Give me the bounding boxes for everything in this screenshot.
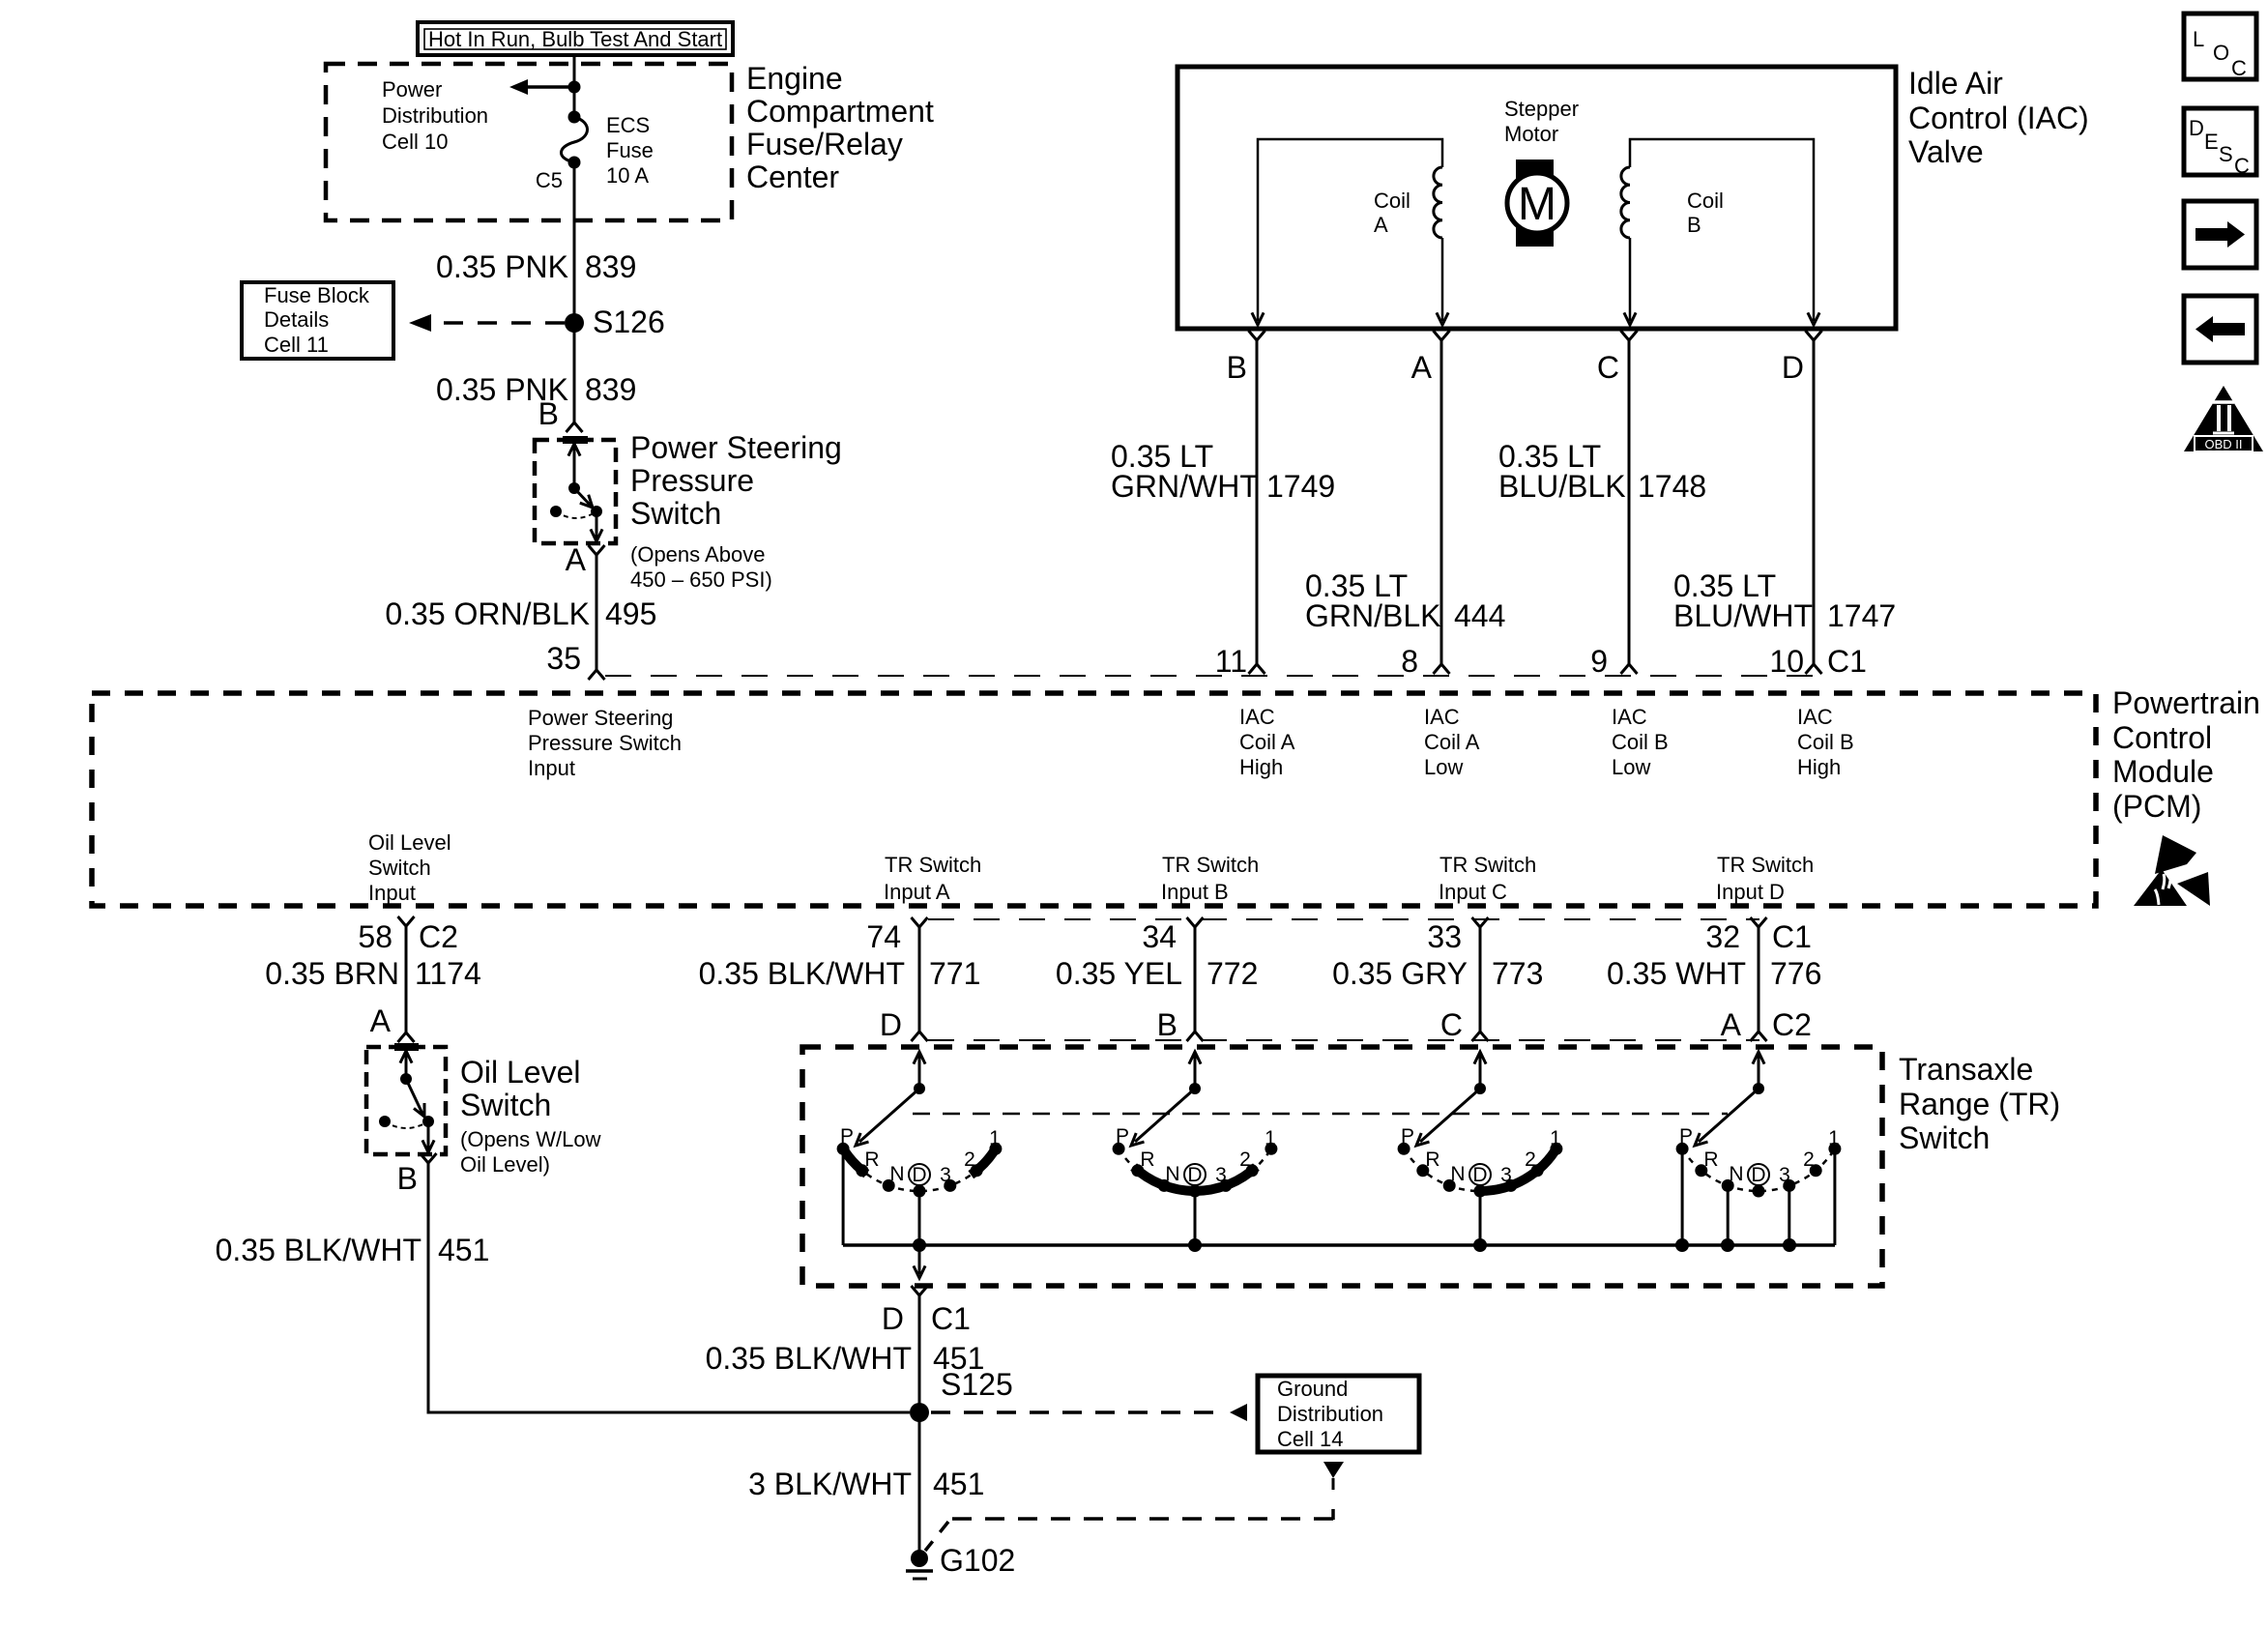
svg-text:3 BLK/WHT: 3 BLK/WHT: [748, 1467, 912, 1501]
bus junction: [913, 1238, 926, 1252]
svg-text:N: N: [1165, 1163, 1179, 1185]
svg-text:Oil Level: Oil Level: [460, 1055, 581, 1090]
svg-text:Input A: Input A: [884, 880, 950, 904]
pin 33 (PCM C1): [1472, 917, 1489, 927]
PCM output label TR Switch Input A: [884, 853, 981, 904]
icon OBD II triangle: [2184, 386, 2263, 451]
svg-text:451: 451: [438, 1233, 489, 1267]
icon arrow left: [2184, 296, 2256, 363]
svg-text:8: 8: [1401, 644, 1418, 679]
svg-text:35: 35: [546, 641, 581, 676]
TR switch wiper pivot S4: [1753, 1083, 1764, 1094]
svg-text:451: 451: [933, 1467, 984, 1501]
label 0.35 WHT 776: [1607, 956, 1821, 991]
svg-text:D: D: [2189, 116, 2204, 140]
wire 0.35 PNK 839 (fuse to S126): [573, 162, 576, 422]
TR switch wiper pivot S3: [1474, 1083, 1486, 1094]
TR switch wiper arm S2: [1135, 1089, 1195, 1142]
label 0.35 LT BLU/BLK 1748: [1498, 439, 1706, 504]
svg-text:Fuse/Relay: Fuse/Relay: [746, 127, 903, 161]
oil switch fixed contact bar: [394, 1043, 419, 1051]
Transaxle Range (TR) Switch box: [802, 1047, 1882, 1286]
svg-text:Input D: Input D: [1716, 880, 1785, 904]
svg-text:0.35 BLK/WHT: 0.35 BLK/WHT: [699, 956, 905, 991]
junction to Power Distribution: [568, 81, 581, 94]
svg-text:2: 2: [1525, 1148, 1536, 1171]
svg-text:High: High: [1239, 755, 1283, 779]
svg-text:(Opens Above: (Opens Above: [630, 542, 765, 567]
TR switch contact 1 S3: [1550, 1143, 1562, 1155]
dashed link to Ground Distribution: [931, 1404, 1247, 1421]
svg-text:Fuse: Fuse: [606, 138, 654, 162]
TR switch contact arc S3: [1404, 1148, 1556, 1191]
TR switch wiper pivot S1: [914, 1083, 925, 1094]
TR switch contact arc S2: [1119, 1148, 1271, 1191]
svg-text:BLU/WHT: BLU/WHT: [1673, 598, 1813, 633]
TR switch contact wire S4: [1833, 1153, 1836, 1245]
TR switch contact arc S4: [1682, 1148, 1835, 1191]
svg-text:Distribution: Distribution: [1277, 1402, 1383, 1426]
TR switch contact 1 S2: [1265, 1143, 1277, 1155]
switch moving arm: [574, 488, 591, 506]
svg-text:C2: C2: [419, 919, 458, 954]
svg-text:2: 2: [1239, 1148, 1251, 1171]
TR switch output arrow: [918, 1245, 921, 1274]
svg-text:Pressure: Pressure: [630, 463, 754, 498]
svg-text:Center: Center: [746, 160, 839, 194]
svg-text:Power Steering: Power Steering: [528, 706, 673, 730]
svg-text:S126: S126: [593, 305, 665, 339]
svg-text:0.35 BRN: 0.35 BRN: [265, 956, 399, 991]
oil switch input arrow: [405, 1053, 408, 1079]
bus junction: [1783, 1238, 1796, 1252]
TR switch contact 2 S1: [971, 1164, 983, 1177]
svg-text:0.35 PNK: 0.35 PNK: [436, 249, 568, 284]
arrow to Power Distribution Cell 10: [509, 79, 574, 95]
TR switch contact P S3: [1398, 1143, 1410, 1155]
terminal B of IAC valve: [1249, 331, 1265, 340]
svg-text:34: 34: [1142, 919, 1177, 954]
label Stepper Motor: [1504, 97, 1579, 146]
TR switch contact N S2: [1158, 1179, 1171, 1192]
bus junction: [1473, 1238, 1487, 1252]
switch input arrow: [573, 446, 576, 488]
TR switch contact N S3: [1443, 1179, 1456, 1192]
svg-text:G102: G102: [940, 1543, 1015, 1578]
dashed arrow to Fuse Block Details: [409, 314, 565, 332]
svg-text:Transaxle: Transaxle: [1899, 1052, 2033, 1087]
coil A wire arrow (B side): [1252, 312, 1264, 325]
label 0.35 YEL 772: [1056, 956, 1258, 991]
svg-text:Engine: Engine: [746, 61, 843, 96]
svg-text:N: N: [889, 1163, 904, 1185]
svg-text:GRN/BLK: GRN/BLK: [1305, 598, 1440, 633]
svg-text:9: 9: [1590, 644, 1608, 679]
coil A wire arrow (A side): [1437, 312, 1448, 325]
svg-text:P: P: [1679, 1125, 1693, 1148]
oil switch alternate contact: [379, 1116, 391, 1127]
svg-text:A: A: [566, 542, 587, 577]
svg-text:D: D: [882, 1301, 904, 1336]
wire PCM 74 to TR switch: [918, 927, 921, 1032]
switch fixed contact bar: [563, 436, 588, 444]
switch alternate contact: [550, 506, 562, 517]
pin 32 (PCM C1): [1751, 917, 1767, 927]
TR switch contact R S3: [1416, 1164, 1429, 1177]
svg-text:0.35 BLK/WHT: 0.35 BLK/WHT: [706, 1341, 912, 1376]
svg-text:32: 32: [1705, 919, 1740, 954]
TR switch common bus: [843, 1243, 1835, 1247]
svg-text:Stepper: Stepper: [1504, 97, 1579, 121]
terminal D (TR C1): [912, 1286, 928, 1295]
TR switch contact P S4: [1676, 1143, 1689, 1155]
svg-text:B: B: [1687, 213, 1701, 237]
TR switch wiper arm S1: [859, 1089, 919, 1142]
svg-text:1: 1: [989, 1127, 1001, 1149]
Idle Air Control (IAC) Valve box: [1178, 67, 1896, 329]
svg-text:ECS: ECS: [606, 113, 650, 137]
connector C2 grouping line (TR box): [928, 1039, 1759, 1041]
TR switch contact arc S1: [843, 1148, 996, 1191]
TR switch thick contact segment S2: [1134, 1167, 1257, 1191]
svg-text:N: N: [1450, 1163, 1465, 1185]
svg-text:L: L: [2193, 27, 2204, 51]
wire IAC D to PCM: [1813, 340, 1816, 664]
svg-text:P: P: [840, 1125, 854, 1148]
svg-text:C: C: [2234, 154, 2250, 178]
wire PCM 33 to TR switch: [1479, 927, 1482, 1032]
svg-text:B: B: [538, 396, 559, 431]
svg-text:2: 2: [964, 1148, 975, 1171]
svg-text:D: D: [1472, 1164, 1487, 1186]
svg-text:Powertrain: Powertrain: [2112, 685, 2260, 720]
wire PCM 34 to TR switch: [1194, 927, 1197, 1032]
label 0.35 BLK/WHT 771: [699, 956, 981, 991]
note (Opens Above 450 - 650 PSI): [630, 542, 772, 592]
PCM output label TR Switch Input D: [1716, 853, 1814, 904]
svg-text:2: 2: [1803, 1148, 1815, 1171]
switch contact (output): [591, 506, 602, 517]
svg-text:Oil Level: Oil Level: [368, 830, 451, 855]
TR switch input arrow: [1479, 1054, 1482, 1089]
svg-text:450 – 650 PSI): 450 – 650 PSI): [630, 567, 772, 592]
svg-text:D: D: [1782, 350, 1804, 385]
icon LOC: [2184, 14, 2256, 80]
svg-text:C: C: [1597, 350, 1619, 385]
label Oil Level Switch: [460, 1055, 581, 1122]
svg-text:S125: S125: [941, 1367, 1013, 1402]
svg-text:Coil: Coil: [1687, 189, 1724, 213]
fuse ECS Fuse 10 A: [562, 111, 588, 169]
svg-text:M: M: [1518, 179, 1556, 230]
svg-text:Coil A: Coil A: [1424, 730, 1480, 754]
svg-text:C: C: [1440, 1007, 1463, 1042]
svg-text:IAC: IAC: [1797, 705, 1833, 729]
svg-text:(PCM): (PCM): [2112, 789, 2201, 824]
TR switch contact wire S2: [1194, 1197, 1197, 1245]
svg-text:0.35 ORN/BLK: 0.35 ORN/BLK: [385, 596, 590, 631]
position label D (circled) S3: [1469, 1164, 1491, 1185]
svg-text:3: 3: [1215, 1164, 1227, 1186]
terminal C of IAC valve: [1621, 331, 1638, 340]
icon DESC: [2184, 108, 2256, 178]
svg-text:Input: Input: [368, 881, 416, 905]
svg-text:Details: Details: [264, 307, 329, 332]
svg-text:1: 1: [1265, 1127, 1276, 1149]
svg-text:74: 74: [866, 919, 901, 954]
svg-text:Cell 14: Cell 14: [1277, 1427, 1343, 1451]
svg-text:A: A: [1374, 213, 1388, 237]
Power Steering Pressure Switch box: [535, 440, 616, 543]
TR switch contact 2 S2: [1246, 1164, 1259, 1177]
svg-text:1174: 1174: [415, 956, 481, 991]
TR switch input arrow: [918, 1054, 921, 1089]
bus junction: [1188, 1238, 1202, 1252]
svg-text:3: 3: [940, 1164, 951, 1186]
splice S126: [565, 305, 665, 339]
svg-text:Hot In Run, Bulb Test And Star: Hot In Run, Bulb Test And Start: [428, 27, 722, 51]
coil B wire arrow (C side): [1624, 312, 1636, 325]
label 0.35 LT BLU/WHT 1747: [1673, 568, 1896, 633]
ground G102: [906, 1543, 1015, 1579]
coil A wiring: [1258, 139, 1442, 321]
connector C1 grouping line (PCM top): [605, 675, 1815, 677]
svg-text:Switch: Switch: [368, 856, 431, 880]
svg-text:0.35 WHT: 0.35 WHT: [1607, 956, 1746, 991]
bus junction: [1721, 1238, 1734, 1252]
svg-text:IAC: IAC: [1612, 705, 1647, 729]
svg-text:Low: Low: [1424, 755, 1463, 779]
PCM output label TR Switch Input C: [1439, 853, 1536, 904]
svg-text:Motor: Motor: [1504, 122, 1558, 146]
wire PCM 32 to TR switch: [1758, 927, 1760, 1032]
PCM input label IAC Coil A High: [1239, 705, 1295, 779]
TR switch contact P S1: [837, 1143, 850, 1155]
svg-text:1748: 1748: [1638, 469, 1706, 504]
svg-text:C5: C5: [536, 168, 563, 192]
ground reference arrow below box: [1323, 1462, 1344, 1490]
svg-text:R: R: [1703, 1148, 1718, 1171]
TR switch contact wire S1: [842, 1150, 845, 1245]
svg-text:B: B: [1157, 1007, 1178, 1042]
label 0.35 LT GRN/WHT 1749: [1111, 439, 1335, 504]
svg-text:Input: Input: [528, 756, 575, 780]
TR switch contact P S2: [1113, 1143, 1125, 1155]
svg-text:1749: 1749: [1266, 469, 1335, 504]
TR switch thick contact segment S1: [971, 1147, 997, 1176]
TR switch contact D S3: [1474, 1185, 1487, 1198]
svg-text:P: P: [1401, 1125, 1414, 1148]
svg-text:0.35 GRY: 0.35 GRY: [1332, 956, 1468, 991]
PCM input label Power Steering Pressure Switch Input: [528, 706, 682, 780]
label Powertrain Control Module (PCM): [2112, 685, 2260, 824]
svg-text:B: B: [397, 1161, 418, 1196]
terminal A of IAC valve: [1434, 331, 1450, 340]
svg-text:E: E: [2204, 130, 2219, 154]
TR switch input arrow: [1194, 1054, 1197, 1089]
svg-text:1747: 1747: [1827, 598, 1896, 633]
svg-text:IAC: IAC: [1424, 705, 1460, 729]
inductor Coil B: [1621, 167, 1630, 238]
svg-text:1: 1: [1828, 1127, 1840, 1149]
PCM input label IAC Coil A Low: [1424, 705, 1480, 779]
TR switch contact 3 S1: [944, 1179, 956, 1192]
dashed path to G102: [925, 1509, 1333, 1551]
svg-text:B: B: [1227, 350, 1247, 385]
svg-text:R: R: [1140, 1148, 1154, 1171]
svg-text:444: 444: [1454, 598, 1505, 633]
svg-text:TR Switch: TR Switch: [1717, 853, 1814, 877]
svg-text:TR Switch: TR Switch: [1162, 853, 1259, 877]
Engine Compartment Fuse/Relay Center box: [326, 64, 732, 220]
icon arrow right: [2184, 201, 2256, 268]
svg-text:58: 58: [358, 919, 393, 954]
svg-text:P: P: [1116, 1125, 1129, 1148]
TR switch contact R S2: [1131, 1164, 1144, 1177]
svg-text:33: 33: [1427, 919, 1462, 954]
svg-text:Coil B: Coil B: [1797, 730, 1854, 754]
svg-text:Distribution: Distribution: [382, 103, 488, 128]
svg-text:A: A: [1721, 1007, 1742, 1042]
note (Opens W/Low Oil Level): [460, 1127, 601, 1177]
svg-text:GRN/WHT: GRN/WHT: [1111, 469, 1259, 504]
svg-text:TR Switch: TR Switch: [885, 853, 981, 877]
pin 58 (PCM C2): [398, 916, 415, 926]
svg-text:495: 495: [605, 596, 656, 631]
svg-text:Input C: Input C: [1439, 880, 1507, 904]
svg-text:839: 839: [585, 372, 636, 407]
svg-text:Control (IAC): Control (IAC): [1908, 101, 2089, 135]
svg-text:10 A: 10 A: [606, 163, 649, 188]
wire 0.35 BRN 1174: [405, 926, 408, 1032]
oil switch moving arm: [406, 1079, 422, 1114]
TR switch contact N S1: [883, 1179, 895, 1192]
svg-text:Idle Air: Idle Air: [1908, 66, 2003, 101]
TR switch wiper arm S4: [1699, 1089, 1759, 1142]
TR switch contact 3 S2: [1219, 1179, 1232, 1192]
svg-text:3: 3: [1779, 1164, 1790, 1186]
svg-text:R: R: [1425, 1148, 1439, 1171]
label Power Distribution Cell 10: [382, 77, 488, 154]
svg-text:D: D: [880, 1007, 902, 1042]
TR switch contact D S1: [914, 1185, 926, 1198]
svg-text:Control: Control: [2112, 720, 2212, 755]
svg-text:TR Switch: TR Switch: [1439, 853, 1536, 877]
svg-text:C: C: [2231, 56, 2247, 80]
svg-text:Fuse Block: Fuse Block: [264, 283, 370, 307]
label Transaxle Range (TR) Switch: [1899, 1052, 2060, 1155]
label 0.35 GRY 773: [1332, 956, 1543, 991]
svg-text:Input B: Input B: [1161, 880, 1229, 904]
svg-text:(Opens W/Low: (Opens W/Low: [460, 1127, 601, 1151]
svg-text:771: 771: [929, 956, 980, 991]
svg-text:A: A: [1411, 350, 1433, 385]
oil switch output arrow: [427, 1121, 430, 1149]
TR switch contact wire S1: [918, 1191, 921, 1245]
svg-text:Switch: Switch: [630, 496, 721, 531]
inductor Coil A: [1434, 167, 1442, 238]
svg-text:Cell 11: Cell 11: [264, 333, 329, 357]
wire from Hot feed to ECS fuse: [573, 56, 576, 117]
wire IAC C to PCM: [1628, 340, 1631, 664]
stepper motor M: [1507, 160, 1567, 247]
TR switch contact 2 S4: [1810, 1164, 1822, 1177]
TR switch contact R S4: [1695, 1164, 1707, 1177]
svg-text:High: High: [1797, 755, 1841, 779]
svg-text:S: S: [2219, 142, 2233, 166]
pin 74 (PCM C1): [912, 917, 928, 927]
position label D (circled) S1: [909, 1164, 930, 1185]
label Idle Air Control (IAC) Valve: [1908, 66, 2089, 169]
label 0.35 PNK 839: [436, 249, 636, 284]
wiper mechanical link line: [913, 1113, 1728, 1116]
svg-text:IAC: IAC: [1239, 705, 1275, 729]
TR switch contact D S4: [1753, 1185, 1765, 1198]
wire 0.35 ORN/BLK 495: [596, 555, 598, 670]
oil switch pivot: [400, 1073, 412, 1085]
reference box Fuse Block Details Cell 11: [242, 282, 393, 359]
PCM input label IAC Coil B Low: [1612, 705, 1669, 779]
TR switch contact N S4: [1722, 1179, 1734, 1192]
TR switch contact wire S3: [1479, 1194, 1482, 1245]
reference box Ground Distribution Cell 14: [1258, 1376, 1419, 1452]
TR switch thick contact segment S3: [1480, 1147, 1558, 1192]
alternate position arc: [556, 511, 596, 518]
TR switch contact 3 S4: [1783, 1179, 1795, 1192]
TR switch contact R S1: [856, 1164, 868, 1177]
svg-text:11: 11: [1215, 644, 1247, 679]
position label D (circled) S2: [1184, 1164, 1206, 1185]
label 3 BLK/WHT 451: [748, 1467, 984, 1501]
coil B wire arrow (D side): [1808, 312, 1819, 325]
connector C1 grouping line (TR pins): [928, 918, 1759, 920]
coil B wiring: [1630, 139, 1814, 321]
PCM output label TR Switch Input B: [1161, 853, 1259, 904]
TR switch contact 3 S3: [1504, 1179, 1517, 1192]
svg-text:Power: Power: [382, 77, 442, 102]
svg-text:10: 10: [1769, 644, 1804, 679]
wire IAC B to PCM: [1256, 340, 1259, 664]
svg-text:772: 772: [1207, 956, 1258, 991]
label ECS Fuse 10 A: [606, 113, 654, 188]
TR switch contact 1 S4: [1828, 1143, 1841, 1155]
Powertrain Control Module (PCM) box: [92, 693, 2096, 906]
label Engine Compartment Fuse/Relay Center: [746, 61, 934, 194]
svg-text:776: 776: [1770, 956, 1821, 991]
TR switch contact 2 S3: [1531, 1164, 1544, 1177]
pin 34 (PCM C1): [1187, 917, 1204, 927]
TR switch contact 1 S1: [989, 1143, 1002, 1155]
power feed box "Hot In Run, Bulb Test And Start": [418, 22, 733, 55]
TR switch contact wire S4: [1788, 1185, 1790, 1245]
svg-text:C2: C2: [1772, 1007, 1812, 1042]
svg-text:Power Steering: Power Steering: [630, 430, 842, 465]
svg-text:Coil B: Coil B: [1612, 730, 1669, 754]
label 0.35 LT GRN/BLK 444: [1305, 568, 1505, 633]
TR switch contact wire S4: [1727, 1185, 1730, 1245]
TR switch contact wire S4: [1681, 1153, 1684, 1245]
svg-text:C1: C1: [1772, 919, 1812, 954]
svg-text:N: N: [1729, 1163, 1743, 1185]
svg-text:Switch: Switch: [1899, 1120, 1990, 1155]
label Power Steering Pressure Switch: [630, 430, 842, 531]
position label D (circled) S4: [1748, 1164, 1769, 1185]
wire IAC A to PCM: [1440, 340, 1443, 664]
svg-text:O: O: [2213, 41, 2229, 65]
TR switch wiper arm S3: [1420, 1089, 1480, 1142]
svg-text:BLU/BLK: BLU/BLK: [1498, 469, 1626, 504]
bus junction: [1675, 1238, 1689, 1252]
